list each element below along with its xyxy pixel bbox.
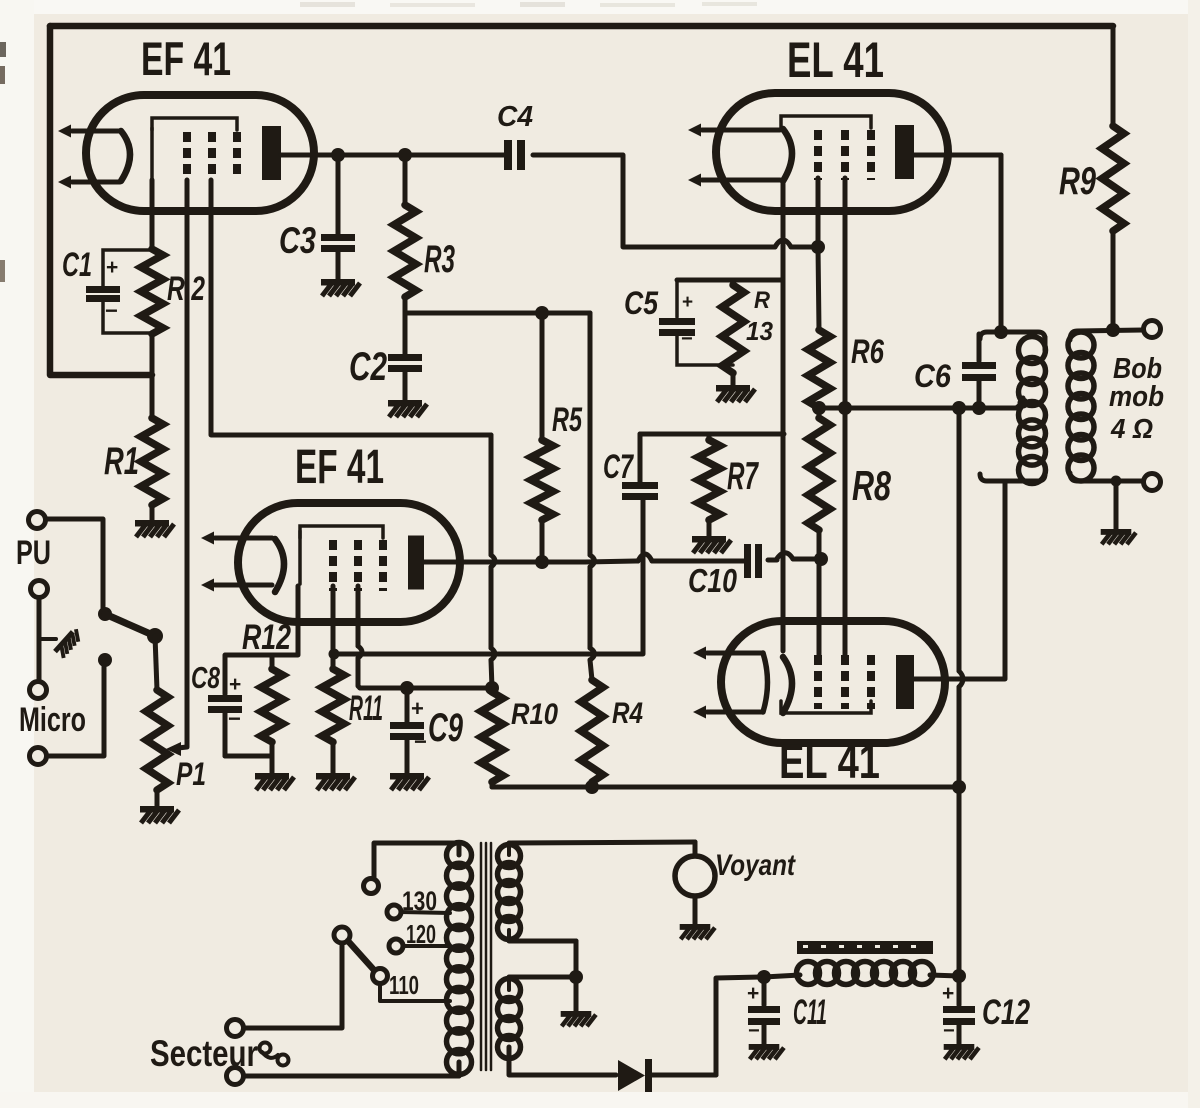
node - switch Micro contact <box>98 653 112 667</box>
svg-text:C5: C5 <box>624 285 659 321</box>
label C5 <box>624 285 659 321</box>
wire - V2 anode line <box>424 560 585 565</box>
node - B+ top junction <box>952 401 966 415</box>
diode D1 <box>618 1059 652 1092</box>
capacitor C2 <box>388 313 422 400</box>
resistor R12 <box>261 655 283 773</box>
capacitor C7 <box>622 482 658 500</box>
tube V3 EL41 envelope <box>716 93 948 211</box>
node - R9 junction <box>1106 323 1120 337</box>
label R2 <box>167 270 205 308</box>
label 110 <box>389 970 419 1000</box>
wire - heater winding top to Voyant <box>509 842 695 855</box>
node - C9 junction <box>400 681 414 695</box>
svg-text:Secteur: Secteur <box>150 1033 258 1074</box>
wire - V3 cathode lead <box>781 181 786 280</box>
wire - primary bottom bracket <box>980 474 1045 481</box>
ground below secondary <box>1101 529 1136 544</box>
wire - primary top stub <box>457 843 462 855</box>
heater lines V4 with arrows <box>693 647 768 719</box>
svg-text:−: − <box>414 729 427 754</box>
label C11 <box>793 993 827 1032</box>
svg-text:C9: C9 <box>428 706 464 750</box>
label Voyant <box>715 849 797 882</box>
power secondary heater winding <box>498 845 521 940</box>
label PU <box>16 534 51 572</box>
ground below R11 <box>316 773 355 790</box>
resistor R8 <box>808 408 830 559</box>
ground below R12 <box>255 773 294 790</box>
svg-text:C2: C2 <box>349 345 387 389</box>
resistor R3 <box>394 155 416 313</box>
capacitor C6 <box>962 334 996 408</box>
wire - B+ vertical <box>959 408 963 976</box>
capacitor C1 box <box>86 250 152 333</box>
node - R5 bottom junction <box>535 555 549 569</box>
wire - secondary top to terminal <box>1070 330 1143 340</box>
label R7 <box>727 455 759 498</box>
ground below C12 <box>944 1044 979 1059</box>
wire - anode line to C10 <box>652 559 746 564</box>
label C5 plus <box>682 292 693 313</box>
terminal mains bottom <box>227 1068 244 1085</box>
terminal tap top <box>364 879 379 894</box>
ground below R7 <box>692 536 731 553</box>
transformer primary centre tap <box>1018 398 1029 409</box>
wire - V2 screen to C9 line <box>358 586 362 688</box>
label C5 minus <box>681 328 693 350</box>
resistor R9 <box>1102 26 1124 330</box>
wire - R8 to V4 grid <box>817 559 822 656</box>
ground below windings <box>561 1011 596 1026</box>
wire - HV top / common ground <box>509 941 576 1011</box>
wire - hop over cathode lead <box>775 240 791 247</box>
label C9 plus <box>411 696 424 721</box>
wire - C9 line <box>360 686 489 691</box>
wire - V3 anode line <box>914 155 1001 332</box>
svg-text:R6: R6 <box>851 333 885 371</box>
label C1 plus <box>106 256 118 279</box>
label R1 <box>104 440 139 483</box>
node - R6/R8 junction <box>812 401 826 415</box>
svg-text:C12: C12 <box>982 993 1030 1032</box>
resistor R6 <box>808 330 830 408</box>
wire - HT line to B+ <box>492 785 959 790</box>
wire - shield to ground <box>39 598 56 681</box>
wire - R3 bottom line to R4 branch <box>405 311 590 316</box>
label R10 <box>511 698 558 731</box>
resistor R2 <box>141 180 163 418</box>
svg-text:+: + <box>106 256 118 279</box>
resistor R10 <box>481 692 503 787</box>
svg-text:C11: C11 <box>793 993 827 1032</box>
node - R4 bottom junction <box>585 780 599 794</box>
svg-text:C10: C10 <box>688 562 738 599</box>
svg-text:R10: R10 <box>511 698 558 731</box>
node - secondary ground junction <box>1111 476 1122 487</box>
wire - V2 grid rail stub <box>298 531 302 584</box>
ground below R1 <box>135 520 174 537</box>
node - R3 junction <box>398 148 412 162</box>
svg-text:R1: R1 <box>104 440 139 483</box>
label C12 plus <box>942 982 954 1005</box>
node - R5 top junction <box>535 306 549 320</box>
capacitor C10 <box>744 544 762 578</box>
wire - V1 screen grid down <box>211 180 491 435</box>
svg-text:120: 120 <box>406 919 436 949</box>
svg-text:+: + <box>942 982 954 1005</box>
svg-text:R8: R8 <box>852 462 891 509</box>
label 4ohm <box>1110 413 1153 444</box>
node - switch PU contact <box>98 607 112 621</box>
ground below R13 <box>716 385 755 402</box>
label C10 <box>688 562 738 599</box>
heater lines V3 with arrows <box>688 124 780 187</box>
filter choke winding <box>764 962 959 985</box>
heater lines V2 with arrows <box>201 532 272 592</box>
label C3 <box>279 220 316 261</box>
label C8 <box>191 660 221 695</box>
svg-text:−: − <box>681 328 693 350</box>
wire - V1 control grid wire to P1 <box>185 180 190 744</box>
wire - heater winding bottom <box>509 930 576 941</box>
wire - left border down to R2/C1 bottom <box>50 26 152 375</box>
tube V2 EF41 envelope <box>238 503 460 622</box>
node - C6 bottom junction <box>972 401 986 415</box>
ground below C2 <box>388 400 427 417</box>
label C8 plus <box>229 673 241 696</box>
label P1 <box>176 756 206 792</box>
svg-text:R11: R11 <box>349 689 383 728</box>
wire - selector to mains <box>244 943 342 1028</box>
wire - line C7 to V2 grid <box>334 500 643 654</box>
svg-text:C6: C6 <box>914 358 951 394</box>
label 120 <box>406 919 436 949</box>
selector arm pivot <box>334 927 350 943</box>
label C6 <box>914 358 951 394</box>
ground below P1 <box>140 806 179 823</box>
label C1 minus <box>105 298 118 323</box>
terminal PU return <box>31 581 48 598</box>
svg-text:PU: PU <box>16 534 51 572</box>
label EF41 (V2) <box>295 441 384 494</box>
wire - primary bottom to V4 anode <box>1003 481 1008 678</box>
node - screens/C9 junction <box>485 681 499 695</box>
wire - tap 110 <box>380 983 450 1001</box>
scan artifact left edge <box>0 42 6 282</box>
wire - hop over C7 lead <box>638 554 652 561</box>
ground below C9 <box>390 773 429 790</box>
wire - HV bottom to rectifier <box>509 1047 616 1075</box>
wire - V3 grid lead <box>818 178 819 330</box>
capacitor C5 box <box>659 280 733 365</box>
node - C11 junction <box>757 970 771 984</box>
terminal tap 130 <box>387 905 401 919</box>
wire - C10 to R8 line <box>768 553 818 560</box>
svg-text:C8: C8 <box>191 660 221 695</box>
wire - C7 top lead <box>638 434 643 482</box>
transformer primary upper half <box>1019 337 1046 406</box>
wire - V1 anode line <box>281 153 506 158</box>
svg-text:P1: P1 <box>176 756 206 792</box>
node - screen junction <box>838 401 852 415</box>
label Bob <box>1113 353 1162 385</box>
terminal PU <box>29 512 46 529</box>
wire - C3 to ground <box>336 252 341 279</box>
terminal tap 110 <box>373 969 388 984</box>
svg-text:+: + <box>747 982 759 1005</box>
filter choke core <box>797 941 933 954</box>
svg-text:Micro: Micro <box>19 701 86 739</box>
capacitor C8 <box>208 695 272 756</box>
node - common ground junction <box>569 970 583 984</box>
svg-text:EL 41: EL 41 <box>787 32 884 88</box>
svg-text:mob: mob <box>1109 381 1164 413</box>
svg-text:110: 110 <box>389 970 419 1000</box>
svg-text:−: − <box>943 1020 955 1042</box>
wire - switch to P1 <box>155 636 157 690</box>
label R4 <box>612 697 643 730</box>
label C9 minus <box>414 729 427 754</box>
wire - HT centre-tap line <box>819 398 1023 408</box>
transformer core <box>481 843 491 1070</box>
svg-text:R3: R3 <box>424 238 455 281</box>
label C12 <box>982 993 1030 1032</box>
svg-text:−: − <box>228 706 241 731</box>
wire - secondary to ground <box>1114 481 1119 529</box>
capacitor C9 <box>390 688 424 773</box>
terminal speaker top <box>1144 321 1161 338</box>
label Secteur <box>150 1033 258 1074</box>
node - R11 top junction <box>329 649 340 660</box>
tube V1 EF41 envelope <box>86 95 314 211</box>
label R9 <box>1059 160 1096 203</box>
svg-text:130: 130 <box>402 886 437 916</box>
svg-text:R4: R4 <box>612 697 643 730</box>
node - C3 junction <box>331 148 345 162</box>
ground below C3 <box>321 279 360 296</box>
svg-text:C7: C7 <box>603 448 634 486</box>
svg-text:EF 41: EF 41 <box>295 441 384 494</box>
ground below Voyant <box>680 924 715 939</box>
wire - screens vertical <box>843 178 848 656</box>
node - B+ junction <box>952 780 966 794</box>
svg-text:R9: R9 <box>1059 160 1096 203</box>
label C7 <box>603 448 634 486</box>
svg-text:4 Ω: 4 Ω <box>1110 413 1153 444</box>
capacitor C3 <box>321 234 355 252</box>
resistor R4 branch <box>581 313 603 787</box>
wire - secondary bottom <box>1070 473 1143 481</box>
svg-text:+: + <box>411 696 424 721</box>
resistor R7 <box>698 434 720 536</box>
svg-text:EL 41: EL 41 <box>779 736 880 789</box>
svg-text:R12: R12 <box>242 618 291 657</box>
label EF41 (V1) <box>141 32 231 85</box>
wire - V4 anode line <box>914 677 1005 682</box>
svg-text:−: − <box>105 298 118 323</box>
capacitor C4 <box>504 140 525 170</box>
label R8 <box>852 462 891 509</box>
label C8 minus <box>228 706 241 731</box>
label EL41 (V3) <box>787 32 884 88</box>
node - C10/R8 junction <box>814 552 828 566</box>
wire - rectifier output <box>652 977 761 1075</box>
svg-text:−: − <box>748 1020 760 1042</box>
svg-text:C4: C4 <box>497 101 533 133</box>
wire - C3 lead <box>336 155 341 234</box>
wire - C4 to EL41 grid drop <box>533 155 775 247</box>
node - primary top junction <box>994 325 1008 339</box>
label R13a <box>754 287 771 314</box>
label EL41 (V4) <box>779 736 880 789</box>
power secondary HV winding <box>498 979 521 1059</box>
ground small (input shield) <box>53 627 83 659</box>
resistor R13 <box>722 281 744 385</box>
label C11 plus <box>747 982 759 1005</box>
label R3 <box>424 238 455 281</box>
wire - V2 cathode to C8/R12 <box>225 586 298 694</box>
svg-text:R7: R7 <box>727 455 759 498</box>
label R6 <box>851 333 885 371</box>
terminal speaker bottom <box>1144 474 1161 491</box>
label C4 <box>497 101 533 133</box>
label C12 minus <box>943 1020 955 1042</box>
node - V3 grid junction <box>811 240 825 254</box>
resistor R1 <box>141 418 163 520</box>
wire - screen feed vertical <box>491 435 495 688</box>
switch arm <box>105 614 163 644</box>
ground below C11 <box>749 1044 784 1059</box>
wire - top feedback line from R9 to left border <box>50 23 1113 30</box>
heater lines V1 with arrows <box>58 125 120 189</box>
label mob <box>1109 381 1164 413</box>
svg-text:+: + <box>682 292 693 313</box>
label 130 <box>402 886 437 916</box>
resistor R5 <box>531 313 553 562</box>
wire - grid bias line <box>640 432 784 437</box>
wire - PU to switch <box>46 519 103 609</box>
scan artifact top <box>300 2 757 7</box>
label R13b <box>746 316 774 346</box>
svg-text:+: + <box>229 673 241 696</box>
wire - tap 130 <box>401 912 450 913</box>
label C1 <box>62 246 92 284</box>
wire - mains bottom to primary <box>244 1062 459 1076</box>
wire - tap 120 <box>403 944 450 948</box>
wire - primary top bracket <box>980 332 1045 339</box>
label R12 <box>242 618 291 657</box>
svg-text:C3: C3 <box>279 220 316 261</box>
svg-text:Voyant: Voyant <box>715 849 797 882</box>
svg-text:13: 13 <box>746 316 774 346</box>
terminal Micro return <box>30 682 47 699</box>
label C9 <box>428 706 464 750</box>
wire - into V3 grid <box>791 245 818 250</box>
arrow to P1 wiper <box>166 742 187 756</box>
terminal mains top <box>227 1020 244 1037</box>
tube V4 EL41 envelope <box>721 621 945 743</box>
svg-text:C1: C1 <box>62 246 92 284</box>
transformer secondary <box>1068 332 1094 481</box>
resistor R11 <box>322 586 344 773</box>
lamp Voyant <box>675 842 715 924</box>
power primary coil <box>447 843 472 1075</box>
capacitor C11 <box>748 977 780 1044</box>
potentiometer P1 <box>146 690 168 806</box>
label C2 <box>349 345 387 389</box>
wire - cathode bias line <box>677 278 783 283</box>
wire - cathode vertical to V4 <box>781 280 786 651</box>
label C11 minus <box>748 1020 760 1042</box>
terminal tap 120 <box>389 939 403 953</box>
label Micro <box>19 701 86 739</box>
svg-text:R5: R5 <box>552 401 583 439</box>
wire - anode line hop at R4 <box>585 561 638 562</box>
terminal Micro <box>30 748 47 765</box>
label R5 <box>552 401 583 439</box>
wire - Micro to switch <box>47 665 104 756</box>
svg-text:EF 41: EF 41 <box>141 32 231 85</box>
label R11 <box>349 689 383 728</box>
node - C12 junction <box>952 969 966 983</box>
mains plug symbol <box>260 1043 289 1066</box>
wire - V1 grid rail stub to cathode lead <box>150 128 154 180</box>
transformer primary lower half <box>1019 402 1046 484</box>
capacitor C12 <box>943 976 975 1044</box>
wire - primary top tap <box>374 843 459 877</box>
selector arm <box>348 941 374 970</box>
svg-text:R: R <box>754 287 771 314</box>
